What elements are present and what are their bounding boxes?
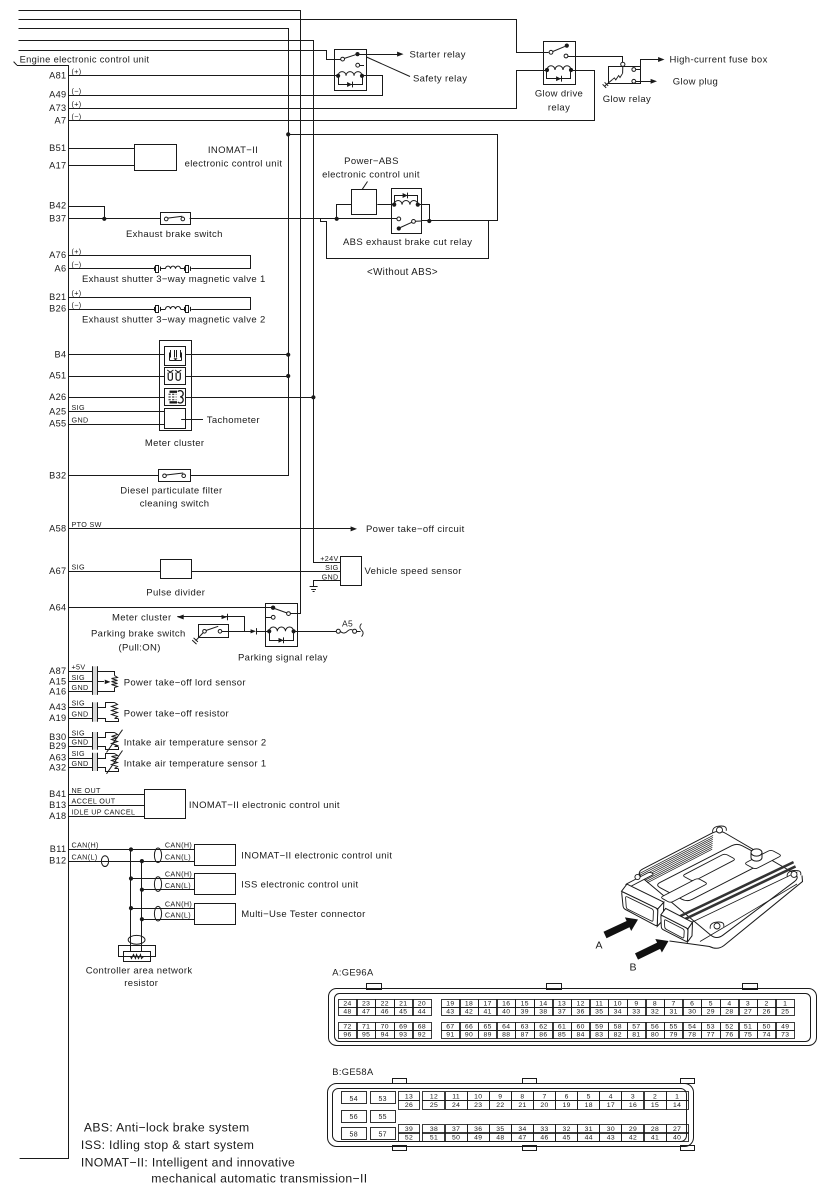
- wire A67 SIG to pulse divider and speed sensor: [69, 571, 341, 573]
- parking signal relay switch: [266, 606, 291, 620]
- svg-text:47: 47: [362, 1009, 370, 1016]
- callout line to Safety relay: [367, 57, 411, 77]
- svg-text:16: 16: [502, 1000, 510, 1007]
- connector face B GE58A outline: [328, 1079, 695, 1151]
- connector oval CAN resistor: [128, 935, 145, 944]
- box pulse divider: [161, 560, 192, 579]
- svg-text:24: 24: [452, 1102, 460, 1109]
- wire CAN(H) branch to ISS electronic control unit: [131, 878, 195, 880]
- svg-text:(+): (+): [72, 100, 82, 109]
- wire parking relay coil to connector A5: [294, 624, 364, 637]
- svg-text:A:GE96A: A:GE96A: [332, 968, 374, 978]
- svg-text:12: 12: [430, 1094, 438, 1101]
- connector A pin grid rows 3-4 (pins 67-49 / 91-73): [442, 1023, 461, 1031]
- svg-text:<Without ABS>: <Without ABS>: [367, 267, 438, 278]
- svg-text:B:GE58A: B:GE58A: [332, 1067, 374, 1077]
- relay box parking signal relay: [266, 604, 298, 647]
- svg-text:5: 5: [709, 1000, 713, 1007]
- svg-text:electronic control unit: electronic control unit: [322, 169, 420, 180]
- svg-text:1: 1: [783, 1000, 787, 1007]
- svg-text:53: 53: [378, 1096, 387, 1103]
- svg-text:92: 92: [418, 1032, 426, 1039]
- wire A19 GND: [69, 718, 92, 720]
- svg-text:70: 70: [381, 1023, 389, 1030]
- svg-text:CAN(L): CAN(L): [165, 852, 191, 861]
- svg-text:69: 69: [399, 1023, 407, 1030]
- box meter cluster: [160, 341, 192, 431]
- svg-text:37: 37: [558, 1009, 566, 1016]
- svg-text:58: 58: [350, 1132, 359, 1139]
- svg-text:49: 49: [474, 1135, 482, 1142]
- connector A43/A19: [92, 702, 97, 721]
- svg-text:65: 65: [483, 1023, 491, 1030]
- svg-text:59: 59: [595, 1023, 603, 1030]
- svg-text:Diesel particulate filter: Diesel particulate filter: [120, 486, 222, 497]
- svg-text:68: 68: [418, 1023, 426, 1030]
- svg-text:Power take−off circuit: Power take−off circuit: [366, 524, 465, 535]
- arrow A to connector A: [604, 917, 639, 938]
- svg-text:GND: GND: [72, 738, 89, 747]
- connector B pin grid rows 1-2 (pins 12-1 / 25-14): [423, 1092, 445, 1101]
- svg-text:INOMAT−II: Intelligent and inn: INOMAT−II: Intelligent and innovative: [81, 1156, 295, 1170]
- svg-text:17: 17: [483, 1000, 491, 1007]
- svg-text:83: 83: [595, 1032, 603, 1039]
- svg-text:GND: GND: [72, 759, 89, 768]
- svg-text:49: 49: [781, 1023, 789, 1030]
- svg-text:Multi−Use Tester connector: Multi−Use Tester connector: [241, 909, 365, 920]
- svg-text:34: 34: [518, 1126, 526, 1133]
- svg-text:(−): (−): [72, 260, 82, 269]
- wire B37 exhaust brake: [69, 218, 160, 220]
- arrow B to connector B: [635, 939, 669, 960]
- engine ECU boundary (Engine electronic control unit): [14, 62, 69, 1159]
- svg-text:SIG: SIG: [72, 699, 85, 708]
- svg-text:A49: A49: [49, 90, 66, 100]
- svg-text:B51: B51: [49, 143, 66, 153]
- svg-text:Vehicle speed sensor: Vehicle speed sensor: [365, 566, 462, 577]
- wire CAN(L) rail: [141, 861, 143, 951]
- svg-text:A6: A6: [55, 263, 67, 273]
- svg-text:57: 57: [632, 1023, 640, 1030]
- svg-text:71: 71: [362, 1023, 370, 1030]
- wire A51 meter cluster to rail: [185, 376, 288, 378]
- svg-text:relay: relay: [548, 103, 570, 114]
- svg-text:10: 10: [614, 1000, 622, 1007]
- wire A7 glow drive relay coil return: [69, 71, 595, 121]
- svg-text:(−): (−): [72, 86, 82, 95]
- svg-text:B42: B42: [49, 201, 66, 211]
- svg-text:28: 28: [651, 1126, 659, 1133]
- wire ABS relay output to exhaust circuit rail: [289, 135, 498, 221]
- meter cluster engine warning lamp box: [165, 389, 186, 406]
- box ISS electronic control unit: [195, 874, 236, 895]
- svg-text:A: A: [596, 940, 603, 952]
- callout line Power-ABS: [362, 182, 368, 190]
- svg-text:39: 39: [521, 1009, 529, 1016]
- svg-text:CAN(H): CAN(H): [165, 899, 192, 908]
- glow drive relay switch: [549, 44, 569, 58]
- svg-text:25: 25: [781, 1009, 789, 1016]
- box INOMAT-II ECU (outputs): [145, 790, 186, 819]
- thermistor Intake air temperature sensor 2: [98, 730, 123, 753]
- svg-text:Meter cluster: Meter cluster: [112, 612, 171, 623]
- svg-text:Parking signal relay: Parking signal relay: [238, 653, 328, 664]
- wire valve 1 return: [191, 268, 251, 270]
- illustration ECU pin-row band: [667, 861, 798, 932]
- svg-text:B41: B41: [49, 789, 66, 799]
- svg-text:B11: B11: [50, 844, 67, 854]
- svg-text:15: 15: [651, 1102, 659, 1109]
- wire A64 to parking signal relay: [69, 607, 273, 609]
- relay box glow drive relay: [544, 42, 576, 85]
- svg-text:A81: A81: [49, 70, 66, 80]
- connector B pin grid rows 3-4 (pins 38-27 / 51-40): [423, 1125, 445, 1134]
- svg-text:(+): (+): [72, 247, 82, 256]
- thermistor Intake air temperature sensor 1: [98, 751, 123, 774]
- wire speed sensor GND to ground: [314, 581, 341, 587]
- svg-text:18: 18: [585, 1102, 593, 1109]
- svg-text:57: 57: [378, 1132, 387, 1139]
- svg-text:Safety relay: Safety relay: [413, 74, 467, 85]
- svg-text:31: 31: [585, 1126, 593, 1133]
- resistor Power take−off resistor: [98, 703, 119, 722]
- svg-text:A76: A76: [49, 250, 66, 260]
- svg-text:Tachometer: Tachometer: [207, 415, 260, 426]
- callout line tachometer: [181, 419, 203, 421]
- svg-text:33: 33: [540, 1126, 548, 1133]
- glow relay output to high-current fuse box: [632, 57, 665, 71]
- svg-text:A51: A51: [49, 371, 66, 381]
- svg-text:11: 11: [595, 1000, 603, 1007]
- svg-text:SIG: SIG: [72, 403, 85, 412]
- junction dot ABS relay output: [427, 219, 431, 223]
- switch exhaust brake switch: [161, 213, 191, 225]
- junction dot A26 rail: [311, 395, 315, 399]
- svg-text:76: 76: [725, 1032, 733, 1039]
- svg-text:A15: A15: [49, 677, 66, 687]
- label Controller area network resistor: [86, 965, 193, 989]
- svg-text:6: 6: [565, 1094, 569, 1101]
- wire B41 NE OUT: [69, 794, 145, 796]
- wire parking brake switch to relay coil with connector: [222, 628, 269, 634]
- svg-text:24: 24: [343, 1000, 351, 1007]
- svg-text:62: 62: [539, 1023, 547, 1030]
- wire A81 to safety relay coil: [69, 75, 338, 77]
- junction dot CAN(L) ISS electronic control unit: [140, 888, 144, 892]
- wire B11 CAN(H): [69, 849, 195, 851]
- label Diesel particulate filter cleaning switch: [120, 486, 222, 510]
- svg-text:79: 79: [669, 1032, 677, 1039]
- svg-text:A67: A67: [49, 566, 66, 576]
- svg-text:73: 73: [781, 1032, 789, 1039]
- svg-text:20: 20: [540, 1102, 548, 1109]
- svg-text:+24V: +24V: [320, 554, 338, 563]
- junction dot CAN(L) Multi−Use Tester connector: [140, 917, 144, 921]
- wire A18 IDLE UP CANCEL: [69, 816, 145, 818]
- svg-text:89: 89: [483, 1032, 491, 1039]
- svg-text:51: 51: [744, 1023, 752, 1030]
- svg-text:CAN(H): CAN(H): [72, 841, 99, 850]
- svg-text:37: 37: [452, 1126, 460, 1133]
- svg-text:2: 2: [653, 1094, 657, 1101]
- svg-text:10: 10: [474, 1094, 482, 1101]
- svg-text:B: B: [630, 962, 637, 974]
- illustration ECU label plate B: [662, 879, 707, 902]
- junction dot CAN(H) Multi−Use Tester connector: [129, 906, 133, 910]
- svg-text:A73: A73: [49, 103, 66, 113]
- svg-text:Controller area network: Controller area network: [86, 965, 193, 976]
- svg-text:72: 72: [343, 1023, 351, 1030]
- svg-text:84: 84: [576, 1032, 584, 1039]
- svg-text:27: 27: [673, 1126, 681, 1133]
- illustration ECU bolt ears: [635, 826, 801, 929]
- meter cluster branch arrow: [177, 614, 245, 632]
- connector A pin grid rows 3-4 (pins 72-68 / 96-92): [339, 1023, 358, 1031]
- svg-text:Parking brake switch: Parking brake switch: [91, 629, 186, 640]
- svg-text:A5: A5: [342, 618, 353, 628]
- svg-text:B29: B29: [49, 741, 66, 751]
- wire CAN(L) branch to ISS electronic control unit: [142, 889, 195, 891]
- svg-text:2: 2: [765, 1000, 769, 1007]
- svg-text:75: 75: [744, 1032, 752, 1039]
- svg-text:38: 38: [539, 1009, 547, 1016]
- wire top bus line 4 (+24V rail): [19, 41, 341, 563]
- illustration ECU left corner bar: [626, 872, 653, 886]
- svg-text:resistor: resistor: [124, 978, 158, 989]
- svg-text:35: 35: [496, 1126, 504, 1133]
- svg-text:46: 46: [381, 1009, 389, 1016]
- solenoid exhaust shutter 3-way magnetic valve 2: [155, 306, 191, 313]
- svg-text:ABS: Anti−lock brake system: ABS: Anti−lock brake system: [84, 1121, 250, 1135]
- svg-text:A16: A16: [49, 687, 66, 697]
- svg-text:29: 29: [629, 1126, 637, 1133]
- svg-text:3: 3: [746, 1000, 750, 1007]
- wire B29 GND: [69, 746, 92, 748]
- svg-text:A63: A63: [49, 753, 66, 763]
- svg-text:INOMAT−II: INOMAT−II: [208, 145, 258, 156]
- svg-text:35: 35: [595, 1009, 603, 1016]
- svg-text:23: 23: [362, 1000, 370, 1007]
- svg-text:Intake air temperature sensor: Intake air temperature sensor 1: [124, 758, 267, 769]
- svg-text:30: 30: [688, 1009, 696, 1016]
- junction dot B11 rail: [129, 847, 133, 851]
- svg-text:Power take−off resistor: Power take−off resistor: [124, 708, 229, 719]
- switch diesel particulate filter cleaning switch: [159, 470, 191, 482]
- svg-text:6: 6: [690, 1000, 694, 1007]
- connector B30/B29: [92, 732, 97, 750]
- connector A63/A32: [92, 753, 97, 771]
- svg-text:61: 61: [558, 1023, 566, 1030]
- svg-text:15: 15: [521, 1000, 529, 1007]
- svg-text:13: 13: [558, 1000, 566, 1007]
- illustration ECU raised platform: [658, 844, 767, 900]
- svg-text:95: 95: [362, 1032, 370, 1039]
- svg-text:50: 50: [762, 1023, 770, 1030]
- wire starter relay output with arrow: [358, 52, 404, 57]
- svg-text:A25: A25: [49, 407, 66, 417]
- svg-text:8: 8: [520, 1094, 524, 1101]
- svg-text:54: 54: [688, 1023, 696, 1030]
- illustration ECU cooling fins band: [639, 835, 713, 882]
- svg-text:NE OUT: NE OUT: [72, 786, 102, 795]
- svg-text:CAN(H): CAN(H): [165, 841, 192, 850]
- svg-text:40: 40: [673, 1135, 681, 1142]
- svg-text:63: 63: [521, 1023, 529, 1030]
- svg-text:22: 22: [381, 1000, 389, 1007]
- svg-text:Glow plug: Glow plug: [673, 77, 718, 88]
- wire Power-ABS ECU to ABS relay coil: [377, 204, 394, 206]
- connector A pin grid rows 1-2 (pins 19-1 / 43-25): [442, 1000, 461, 1008]
- svg-text:1: 1: [675, 1094, 679, 1101]
- svg-text:42: 42: [465, 1009, 473, 1016]
- svg-text:Pulse divider: Pulse divider: [146, 588, 205, 599]
- svg-text:88: 88: [502, 1032, 510, 1039]
- svg-text:4: 4: [727, 1000, 731, 1007]
- svg-text:Starter relay: Starter relay: [410, 49, 466, 60]
- svg-text:B4: B4: [55, 349, 67, 359]
- svg-text:B26: B26: [49, 304, 66, 314]
- svg-text:90: 90: [465, 1032, 473, 1039]
- glow drive relay coil with flyback diode: [545, 66, 573, 82]
- connector A87/A15/A16: [92, 666, 97, 695]
- svg-text:A19: A19: [49, 713, 66, 723]
- svg-text:30: 30: [607, 1126, 615, 1133]
- svg-text:(+): (+): [72, 67, 82, 76]
- svg-text:87: 87: [521, 1032, 529, 1039]
- wire glow drive relay switch to glow relay: [568, 57, 623, 63]
- svg-text:A17: A17: [49, 160, 66, 170]
- svg-text:21: 21: [399, 1000, 407, 1007]
- svg-text:52: 52: [405, 1135, 413, 1142]
- svg-text:45: 45: [399, 1009, 407, 1016]
- svg-text:A18: A18: [49, 811, 66, 821]
- svg-text:Glow relay: Glow relay: [603, 94, 651, 105]
- box Power-ABS electronic control unit: [352, 190, 377, 215]
- svg-text:(+): (+): [72, 289, 82, 298]
- svg-text:High-current fuse box: High-current fuse box: [670, 55, 768, 66]
- svg-text:Engine electronic control unit: Engine electronic control unit: [20, 54, 150, 64]
- box tachometer: [165, 409, 186, 429]
- meter cluster DPF lamp box: [165, 347, 186, 366]
- svg-text:56: 56: [350, 1114, 359, 1121]
- svg-text:IDLE UP CANCEL: IDLE UP CANCEL: [72, 807, 136, 816]
- wire top bus line 2 (to glow drive relay switch): [19, 20, 549, 53]
- wire CAN(L) branch to Multi−Use Tester connector: [142, 919, 195, 921]
- wire B30 SIG: [69, 737, 92, 739]
- svg-text:A32: A32: [49, 762, 66, 772]
- svg-text:SIG: SIG: [72, 563, 85, 572]
- junction dot B37 ABS branch: [335, 217, 339, 221]
- svg-text:ISS electronic control unit: ISS electronic control unit: [241, 879, 358, 890]
- svg-text:SIG: SIG: [72, 749, 85, 758]
- svg-text:22: 22: [496, 1102, 504, 1109]
- svg-text:74: 74: [762, 1032, 770, 1039]
- svg-text:19: 19: [446, 1000, 454, 1007]
- svg-text:B13: B13: [49, 800, 66, 810]
- svg-text:B12: B12: [49, 856, 66, 866]
- svg-text:39: 39: [405, 1126, 413, 1133]
- svg-text:46: 46: [540, 1135, 548, 1142]
- wire minus exhaust shutter valve 2: [69, 309, 156, 311]
- svg-text:INOMAT−II electronic control: INOMAT−II electronic control unit: [189, 800, 340, 811]
- potentiometer power take-off lord sensor: [98, 672, 118, 692]
- wire ABS relay coil return: [418, 205, 430, 221]
- svg-text:96: 96: [343, 1032, 351, 1039]
- illustration connector A block: [622, 884, 664, 926]
- junction dot exhaust circuit rail: [286, 132, 290, 136]
- svg-text:B21: B21: [49, 292, 66, 302]
- svg-text:(−): (−): [72, 112, 82, 121]
- svg-text:32: 32: [563, 1126, 571, 1133]
- wire B4 meter cluster to rail: [186, 354, 289, 356]
- svg-text:cleaning switch: cleaning switch: [140, 499, 210, 510]
- svg-text:47: 47: [518, 1135, 526, 1142]
- junction dot B42/B37: [102, 217, 106, 221]
- relay box starter/safety relay: [335, 50, 367, 91]
- svg-text:A64: A64: [49, 602, 66, 612]
- wire top bus line 3 (exhaust brake circuit rail): [19, 29, 289, 476]
- wire A15 SIG: [69, 681, 92, 683]
- svg-text:Exhaust shutter 3−way magnetic: Exhaust shutter 3−way magnetic valve 2: [82, 315, 266, 326]
- ABS relay coil with diode above: [392, 193, 420, 207]
- svg-text:CAN(L): CAN(L): [165, 881, 191, 890]
- svg-text:40: 40: [502, 1009, 510, 1016]
- svg-text:8: 8: [653, 1000, 657, 1007]
- svg-text:27: 27: [744, 1009, 752, 1016]
- svg-text:+5V: +5V: [72, 663, 86, 672]
- wire A55 GND to tachometer: [69, 424, 165, 426]
- svg-text:B32: B32: [49, 470, 66, 480]
- wire without-ABS bypass: [321, 219, 489, 259]
- svg-text:36: 36: [576, 1009, 584, 1016]
- svg-text:58: 58: [614, 1023, 622, 1030]
- svg-text:82: 82: [614, 1032, 622, 1039]
- wire A58 PTO SW: [69, 526, 357, 531]
- relay coil (safety relay) with flyback diode: [336, 72, 364, 88]
- svg-text:51: 51: [430, 1135, 438, 1142]
- svg-text:50: 50: [452, 1135, 460, 1142]
- svg-text:54: 54: [350, 1096, 359, 1103]
- svg-text:CAN(H): CAN(H): [165, 870, 192, 879]
- svg-text:14: 14: [539, 1000, 547, 1007]
- svg-text:A26: A26: [49, 392, 66, 402]
- wire A25 SIG to tachometer: [69, 411, 165, 413]
- label Power-ABS electronic control unit: [322, 156, 420, 181]
- wire CAN(H) rail: [130, 850, 132, 952]
- svg-text:78: 78: [688, 1032, 696, 1039]
- svg-text:SIG: SIG: [72, 728, 85, 737]
- svg-text:52: 52: [725, 1023, 733, 1030]
- junction dot B4 rail: [286, 353, 290, 357]
- illustration ECU cylinder knob: [751, 849, 762, 861]
- relay box ABS exhaust brake cut relay: [392, 189, 422, 234]
- svg-text:85: 85: [558, 1032, 566, 1039]
- wire A26 to meter cluster engine lamp: [69, 397, 165, 399]
- switch parking brake switch: [192, 625, 228, 645]
- svg-text:53: 53: [707, 1023, 715, 1030]
- svg-text:81: 81: [632, 1032, 640, 1039]
- wire B51 to INOMAT ECU: [69, 148, 135, 150]
- svg-text:A87: A87: [49, 666, 66, 676]
- wire A43 SIG: [69, 707, 92, 709]
- connector oval INOMAT−II electronic control unit: [154, 848, 161, 863]
- wire A17 to INOMAT ECU: [69, 165, 135, 167]
- svg-text:21: 21: [518, 1102, 526, 1109]
- svg-text:9: 9: [498, 1094, 502, 1101]
- wire A32 GND: [69, 767, 92, 769]
- svg-text:GND: GND: [72, 415, 89, 424]
- ABS relay switch: [397, 217, 422, 231]
